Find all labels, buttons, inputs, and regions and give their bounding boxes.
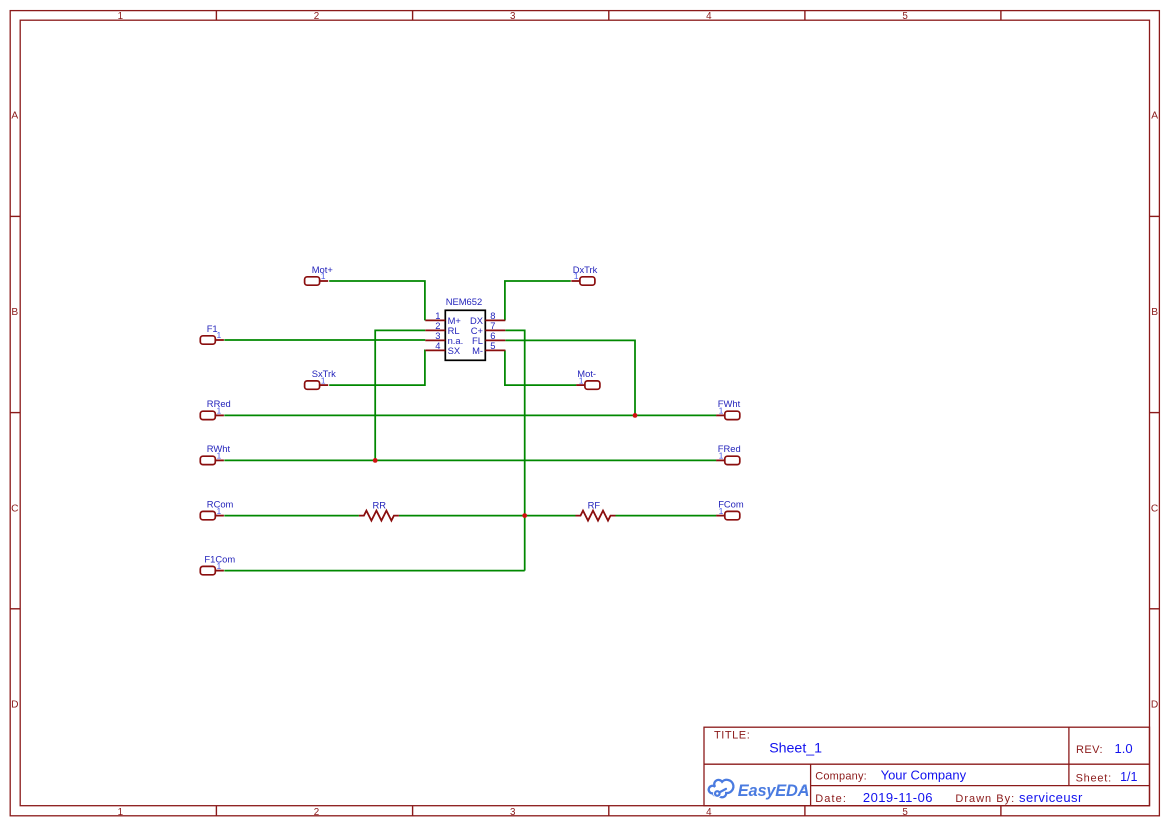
svg-text:Sheet:: Sheet: [1076,772,1112,784]
svg-text:REV:: REV: [1076,744,1103,756]
svg-text:Drawn By:: Drawn By: [955,793,1015,805]
svg-text:NEM652: NEM652 [446,296,482,307]
svg-text:®: ® [802,785,806,792]
svg-text:D: D [1151,700,1158,711]
svg-text:1: 1 [118,11,123,22]
svg-text:RR: RR [373,499,387,510]
svg-text:2019-11-06: 2019-11-06 [863,790,933,805]
svg-text:A: A [1151,111,1158,122]
svg-text:M-: M- [472,345,483,356]
svg-text:Sheet_1: Sheet_1 [769,740,822,756]
svg-text:SxTrk: SxTrk [312,368,336,379]
svg-text:1.0: 1.0 [1115,741,1133,756]
svg-text:FWht: FWht [718,398,741,409]
svg-text:RCom: RCom [207,498,234,509]
svg-text:1: 1 [118,807,123,818]
svg-text:4: 4 [435,340,440,351]
svg-text:serviceusr: serviceusr [1019,790,1083,805]
svg-text:4: 4 [706,11,712,22]
svg-text:FCom: FCom [718,498,744,509]
svg-text:Your Company: Your Company [881,767,967,782]
svg-text:3: 3 [510,11,516,22]
svg-text:TITLE:: TITLE: [714,729,750,741]
svg-text:5: 5 [490,340,495,351]
svg-text:FRed: FRed [718,443,741,454]
svg-text:SX: SX [448,345,461,356]
svg-text:F1Com: F1Com [204,553,235,564]
svg-text:RWht: RWht [207,443,231,454]
svg-text:B: B [11,307,18,318]
svg-text:Date:: Date: [815,793,847,805]
svg-text:D: D [11,700,18,711]
svg-text:F1: F1 [207,323,218,334]
svg-text:RRed: RRed [207,398,231,409]
svg-text:B: B [1151,307,1158,318]
svg-text:RF: RF [588,499,601,510]
svg-text:4: 4 [706,807,712,818]
svg-text:2: 2 [314,11,319,22]
svg-text:C: C [1151,503,1158,514]
svg-text:5: 5 [902,11,908,22]
svg-text:Mot+: Mot+ [312,264,334,275]
svg-text:3: 3 [510,807,516,818]
svg-text:A: A [11,111,18,122]
svg-text:C: C [11,503,18,514]
svg-text:Mot-: Mot- [577,368,596,379]
svg-text:5: 5 [902,807,908,818]
svg-text:Company:: Company: [815,770,867,782]
svg-text:2: 2 [314,807,319,818]
svg-text:1/1: 1/1 [1120,770,1137,784]
svg-text:EasyEDA: EasyEDA [738,782,810,800]
svg-text:DxTrk: DxTrk [573,264,598,275]
